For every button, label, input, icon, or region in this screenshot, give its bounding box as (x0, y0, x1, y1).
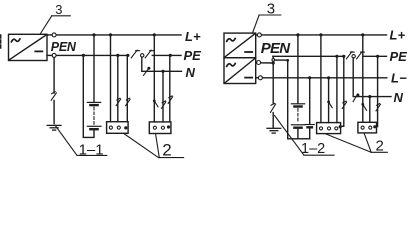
node on PE for socket X1 pin3 (left) (126, 54, 129, 57)
wire socket X1 pin1 drop from L+ (left) (110, 35, 112, 122)
wire L- bus (right) (263, 77, 387, 79)
svg-text:PEN: PEN (51, 40, 77, 54)
node on L+ for socket X4 (right) (361, 33, 364, 36)
node: PEN split point circle (right) (352, 55, 355, 58)
callout 1-2 (right) (275, 116, 335, 157)
wire L+ bus (right) (262, 34, 387, 36)
terminal circle L+ output (left) (47, 33, 56, 37)
switch on X3 pin2 drop (right) (327, 101, 332, 108)
svg-text:PEN: PEN (261, 40, 292, 57)
node on N for socket X4 pin2 (right) (368, 95, 371, 98)
node on L+ for socket X1 (left) (109, 33, 112, 36)
converter U1 (a.c./d.c. source, left) (9, 34, 48, 60)
switch S3 on N link (right) (353, 94, 359, 102)
battery GB1 cell 2 (left) (87, 126, 101, 129)
scan artifact at left edge (0, 35, 2, 50)
node: PEN split point circle (left) (141, 54, 144, 57)
switch S4 on earthing conductor (right) (271, 103, 276, 112)
wire L+ bus (left) (56, 34, 181, 36)
wire socket X2 pin2 drop from N (left) (162, 71, 164, 122)
battery GB2 cell 2 (right) (291, 125, 305, 128)
wire socket X3 pin2 drop from L- (right) (328, 78, 330, 123)
svg-text:L−: L− (391, 70, 407, 85)
wire N riser from split circle (left) (142, 57, 182, 71)
node on PE for battery loop (left) (82, 54, 85, 57)
svg-text:3: 3 (55, 2, 62, 17)
wire battery 2 drop from L- (right) (309, 78, 311, 124)
wire socket X3 pin3 drop from PE (right) (336, 56, 338, 122)
wire M/PEN conductor stub (right) (261, 62, 274, 64)
node on L- for socket X3 pin2 (right) (327, 76, 330, 79)
svg-text:N: N (186, 65, 196, 80)
wire battery 1 positive drop from L+ (right) (297, 35, 299, 103)
switch on X3 earth drop (right) (342, 101, 346, 108)
terminal circle L+ output (right) (256, 33, 262, 37)
wire socket X4 pin1 drop from L+ (right) (362, 35, 364, 104)
svg-text:2: 2 (162, 141, 171, 160)
wire socket X1 pin3 drop from PE (left) (126, 55, 128, 121)
svg-text:PE: PE (184, 48, 202, 63)
svg-text:L+: L+ (390, 28, 406, 43)
switch on X2 pin3 drop (left) (168, 96, 172, 103)
socket outlet X1 (left) (107, 122, 129, 134)
wire battery positive drop from L+ (left) (93, 35, 95, 102)
wire battery 1 return loop to M (right) (288, 60, 298, 139)
node on L+ for battery 1 (right) (296, 33, 299, 36)
wire PE riser (right) (272, 56, 274, 63)
switch S1 on PE link (left) (131, 50, 139, 58)
node on PE for socket X2 pin3 (left) (169, 54, 172, 57)
battery GB3 cell (right) (305, 125, 314, 128)
node on PE for socket X4 earth contact (right) (376, 55, 379, 58)
wire PE bus (right) (273, 55, 344, 57)
battery GB2 dashed middle (right) (297, 109, 299, 123)
wire PE bus continuation (left) (152, 54, 181, 56)
callout 2 (left) (124, 133, 184, 159)
ground: system earth (right) (267, 128, 281, 133)
node on L+ for socket X3 (right) (319, 33, 322, 36)
node M wire elbow (right) (286, 59, 289, 62)
wire battery return loop to PEN (left) (83, 55, 94, 137)
wire socket X3 earth drop from PE (right) (341, 56, 344, 126)
wire socket X2 pin3 drop from PE (left) (169, 55, 171, 122)
wire socket X3 pin1 drop from L+ (right) (320, 35, 322, 123)
svg-text:L+: L+ (185, 29, 201, 44)
node M junction (right) (272, 61, 275, 64)
callout 2 (right) (325, 133, 387, 155)
node on L- for battery 2 (right) (308, 76, 311, 79)
node on PE for socket X3 earth contact (right) (342, 55, 345, 58)
switch S2 on PE link (right) (357, 52, 365, 59)
node: PEN split circle on riser (right) (272, 59, 275, 62)
wire N riser from split circle (right) (353, 58, 391, 97)
terminal circle L- output (right) (256, 76, 263, 80)
socket outlet X4 (right) (358, 122, 377, 133)
svg-text:2: 2 (376, 138, 384, 155)
switch on X1 pin3 drop (left) (126, 98, 130, 105)
wire earthing conductor (right) (272, 63, 274, 128)
wire earthing conductor (left) (53, 58, 55, 124)
callout 3 (right) (253, 1, 281, 34)
wire battery 2 stub to return loop (right) (309, 128, 311, 139)
converter U2 (a.c./d.c. source, two sections, right) (224, 33, 256, 83)
battery GB1 cell 1 (left) (87, 102, 100, 105)
switch S2 on PE link (left) (145, 50, 153, 58)
battery GB2 cell 1 (right) (291, 104, 304, 107)
switch S1 on PE link (right) (346, 52, 354, 59)
wire return loop extension (right) (298, 138, 310, 140)
wire socket X1 pin2 drop from PE (left) (117, 55, 119, 121)
callout 1-1 (left) (55, 125, 107, 158)
switch on X2 pin2 drop (left) (162, 101, 166, 108)
socket outlet X2 (left) (149, 122, 171, 134)
wire socket X4 pin2 drop from N (right) (369, 97, 371, 123)
switch S3 on N link (left) (144, 67, 151, 76)
callout 3 (left) (40, 2, 70, 34)
node on PE for socket X3 pin3 (right) (335, 55, 338, 58)
ground: system earth (left) (47, 125, 61, 130)
node on L+ for socket X2 (left) (153, 33, 156, 36)
svg-text:PE: PE (390, 49, 408, 64)
socket outlet X3 (right, three pole) (317, 123, 342, 134)
node on N for socket X2 pin2 (left) (161, 70, 164, 73)
node on L+ for battery (left) (92, 33, 95, 36)
switch on X1 pin2 drop (left) (116, 98, 120, 105)
terminal circle M/PEN output (right) (256, 61, 261, 65)
switch S4 on earthing conductor (left) (51, 92, 56, 100)
switch on X2 pin1 drop (left) (153, 100, 158, 107)
terminal circle PEN output (left) (47, 53, 56, 57)
svg-text:N: N (394, 90, 404, 105)
wire M continuation to battery loop (right) (275, 59, 288, 61)
wire socket X4 earth drop from PE (right) (376, 56, 378, 126)
battery GB1 dashed middle (left) (93, 107, 95, 124)
wire PE bus continuation (right) (363, 55, 387, 57)
switch on X4 pin1 drop (right) (361, 103, 366, 110)
svg-text:1–2: 1–2 (301, 141, 325, 157)
wire socket X2 pin1 drop from L+ (left) (153, 35, 155, 122)
node on PE for socket X1 pin2 (left) (116, 54, 119, 57)
wire socket X4 pin1 drop lower (right) (362, 104, 364, 122)
switch on X4 earth drop (right) (376, 104, 380, 111)
wire PEN/PE bus (left) (56, 54, 128, 56)
svg-text:1–1: 1–1 (79, 141, 104, 158)
